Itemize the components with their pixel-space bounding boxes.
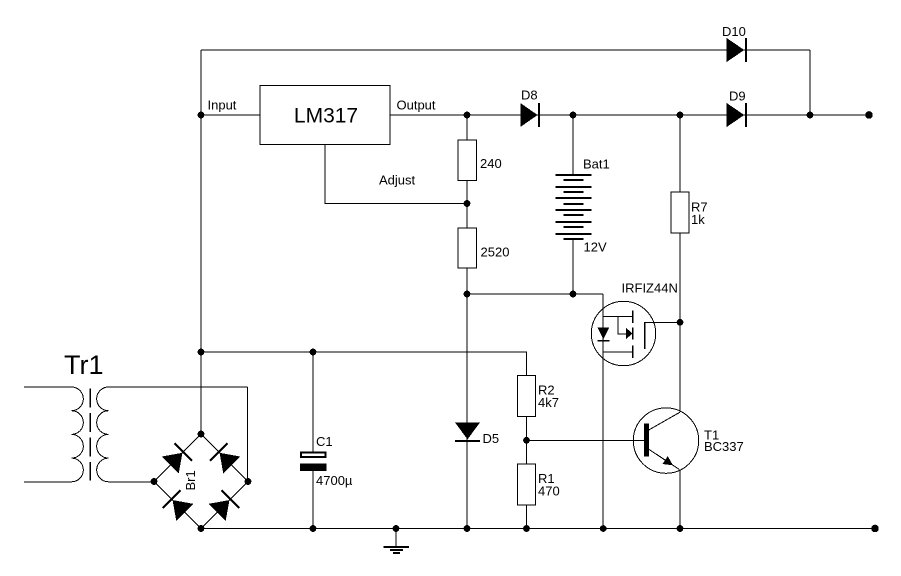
wire mosfet drain	[602, 294, 604, 529]
svg-text:LM317: LM317	[294, 105, 358, 128]
svg-text:Adjust: Adjust	[379, 173, 416, 188]
wire y294	[467, 293, 603, 295]
svg-text:2520: 2520	[481, 245, 510, 260]
svg-text:4k7: 4k7	[538, 395, 559, 410]
wire adjust	[325, 145, 467, 204]
wire input	[201, 114, 260, 116]
bridge diode top-right	[210, 443, 241, 474]
svg-text:D10: D10	[722, 24, 746, 39]
svg-text:D9: D9	[729, 89, 746, 104]
resistor 2520	[458, 228, 476, 268]
junction nodes	[151, 111, 879, 532]
wire output main	[390, 114, 869, 116]
wire R2 bottom / R1	[526, 417, 528, 529]
resistor 240	[458, 140, 476, 181]
diode D5	[455, 423, 499, 447]
bridge rectifier Br1	[154, 434, 248, 529]
wire C1 branch	[312, 352, 314, 529]
mosfet Q1 IRFIZ44N	[591, 281, 678, 366]
transistor T1 BC337	[633, 408, 743, 473]
diode D9	[727, 89, 746, 128]
svg-text:D8: D8	[521, 88, 538, 103]
svg-text:C1: C1	[316, 434, 333, 449]
wire bottom rail	[201, 528, 875, 530]
svg-text:Tr1: Tr1	[64, 350, 104, 380]
svg-text:BC337: BC337	[704, 439, 744, 454]
bridge diode bottom-left	[163, 490, 194, 521]
wire resistor chain	[466, 115, 468, 294]
svg-text:Bat1: Bat1	[583, 157, 610, 172]
wire R7 bottom to collector	[679, 233, 681, 412]
wire y352	[201, 352, 527, 376]
bridge diode bottom-right	[208, 490, 239, 521]
svg-text:4700µ: 4700µ	[316, 473, 353, 488]
wire base	[527, 439, 645, 441]
svg-text:IRFIZ44N: IRFIZ44N	[622, 281, 678, 296]
svg-text:Output: Output	[397, 98, 436, 113]
svg-text:1k: 1k	[691, 212, 705, 227]
diode D10	[722, 24, 746, 62]
battery Bat1	[556, 175, 592, 239]
wire D5 branch	[466, 294, 468, 529]
diode D8	[520, 88, 539, 128]
wire emitter down	[679, 469, 681, 528]
svg-text:Br1: Br1	[183, 470, 198, 490]
wire battery top	[572, 115, 574, 175]
ground	[384, 529, 409, 554]
transformer Tr1	[24, 387, 248, 482]
wire left vertical	[200, 50, 202, 434]
resistor R7	[671, 192, 689, 233]
capacitor C1	[300, 434, 353, 488]
wire gate	[645, 321, 680, 323]
wire R7 top	[679, 115, 681, 192]
wire top rail	[201, 49, 810, 51]
svg-text:Input: Input	[208, 98, 237, 113]
wire right vertical top	[809, 50, 811, 115]
svg-text:470: 470	[538, 484, 560, 499]
svg-text:D5: D5	[483, 431, 500, 446]
resistor R2	[518, 376, 536, 417]
wire battery bottom	[572, 239, 574, 294]
regulator U1 LM317	[260, 86, 390, 145]
bridge diode top-left	[161, 443, 192, 474]
resistor R1	[518, 464, 536, 505]
svg-text:240: 240	[480, 156, 502, 171]
svg-text:12V: 12V	[584, 240, 607, 255]
